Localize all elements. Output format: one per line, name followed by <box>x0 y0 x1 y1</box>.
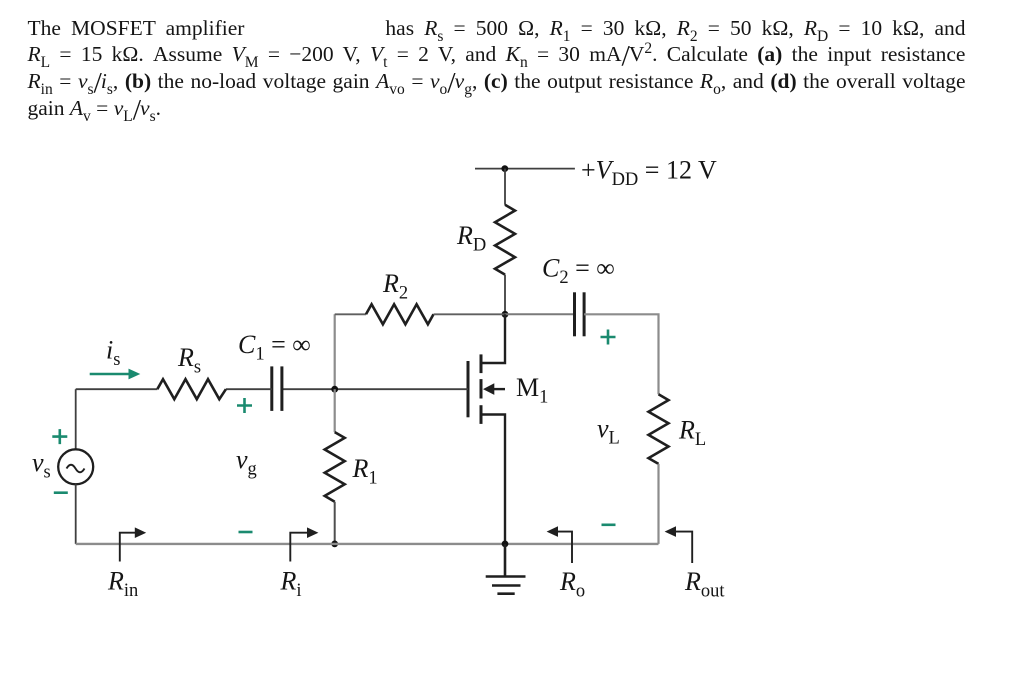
plus sign above vs (teal) <box>52 429 67 444</box>
MOSFET M1 <box>468 314 505 544</box>
channel dash top <box>480 354 483 373</box>
svg-text:vL: vL <box>597 414 620 449</box>
wire drain node to C2 <box>505 313 574 315</box>
svg-text:R2: R2 <box>382 269 408 304</box>
node gate junction dot <box>331 386 338 393</box>
svg-text:M1: M1 <box>516 373 548 408</box>
svg-text:Ri: Ri <box>280 567 302 602</box>
node R1 bottom junction dot <box>331 541 338 548</box>
minus sign below vs (teal) <box>54 491 68 494</box>
arrow Rin <box>120 533 136 562</box>
wire C2 to RL top <box>584 314 658 394</box>
wire R1 bottom <box>334 502 336 544</box>
resistor RD <box>495 205 515 275</box>
drain stub <box>481 314 505 363</box>
wire gate <box>282 388 468 390</box>
svg-text:C2 = ∞: C2 = ∞ <box>542 254 615 289</box>
minus sign below vg (teal) <box>239 531 253 534</box>
wire R1 top <box>334 389 336 432</box>
svg-text:vs: vs <box>32 448 51 483</box>
paragraph line 3 <box>28 69 966 94</box>
arrow Ro <box>557 532 572 563</box>
body wire <box>493 388 505 390</box>
capacitor C1 <box>270 366 273 411</box>
svg-text:RL: RL <box>678 416 706 451</box>
paragraph line 1 <box>28 16 966 41</box>
svg-text:R1: R1 <box>352 454 378 489</box>
wire RL bottom <box>657 464 659 544</box>
svg-text:is: is <box>106 336 120 371</box>
channel dash bottom <box>480 405 483 424</box>
arrow Rout <box>675 532 692 563</box>
source stub <box>481 415 505 544</box>
paragraph line 4 <box>28 96 162 121</box>
wire R2 left horizontal <box>335 313 366 315</box>
capacitor C2 <box>573 292 576 336</box>
svg-text:+VDD = 12 V: +VDD = 12 V <box>581 156 717 191</box>
node source bottom junction dot <box>502 541 509 548</box>
node drain junction dot <box>502 311 509 318</box>
wire RD to drain node <box>504 275 506 315</box>
wire left vertical top <box>75 389 77 449</box>
plus sign at C2 (teal) <box>601 330 616 345</box>
wire Rs to C1 <box>226 388 272 390</box>
plus sign at C1 (teal) <box>237 398 252 413</box>
wire bottom rail <box>76 543 659 545</box>
top supply rail wire <box>475 168 575 170</box>
minus sign below vL (teal) <box>602 523 616 526</box>
wire R2 branch left vertical <box>334 314 336 389</box>
paragraph line 2 <box>28 42 966 67</box>
wire R2 to drain node <box>434 313 506 315</box>
wire left vertical bottom <box>75 484 77 544</box>
wire source-left to Rs <box>76 388 158 390</box>
current arrow is (teal) <box>90 373 130 376</box>
node VDD junction dot <box>501 165 508 172</box>
svg-text:Ro: Ro <box>559 567 585 602</box>
wire VDD to RD <box>504 169 506 205</box>
svg-text:Rout: Rout <box>684 567 725 602</box>
svg-text:RD: RD <box>456 221 486 256</box>
svg-text:Rs: Rs <box>177 343 201 378</box>
source vs sine symbol <box>67 465 85 473</box>
resistor Rs <box>157 379 226 399</box>
source vs circle <box>58 449 93 484</box>
ground <box>486 544 526 594</box>
svg-text:C1 = ∞: C1 = ∞ <box>238 330 311 365</box>
arrow Ri <box>290 533 308 562</box>
resistor RL <box>649 394 669 464</box>
svg-text:Rin: Rin <box>107 567 138 602</box>
svg-text:vg: vg <box>236 445 257 480</box>
channel dash middle <box>480 379 483 398</box>
gate bar <box>467 361 470 417</box>
body arrow head <box>483 383 494 395</box>
resistor R1 <box>325 432 345 502</box>
resistor R2 <box>366 304 434 324</box>
